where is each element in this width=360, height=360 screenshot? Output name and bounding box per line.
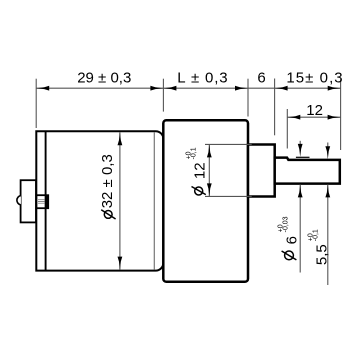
Ø12 leader bottom	[205, 195, 252, 197]
gearbox body	[163, 120, 248, 282]
arrow d32 down	[118, 257, 123, 270]
extension line shaft tip	[340, 79, 342, 150]
output boss (Ø12)	[248, 145, 275, 197]
Ø12 leader top	[205, 143, 252, 145]
extension line flat start	[286, 109, 288, 149]
5,5 lower leader	[327, 184, 329, 285]
arrow d6 down	[298, 144, 303, 157]
arrow 12 right	[328, 115, 341, 120]
svg-text:15± 0,3: 15± 0,3	[286, 70, 343, 87]
extension line motor/gearbox joint	[162, 79, 164, 112]
dimension text d6	[278, 216, 301, 260]
output shaft (Ø6 with flat)	[275, 158, 340, 184]
arrow 12 left	[287, 115, 300, 120]
svg-text:29 ± 0,3: 29 ± 0,3	[77, 70, 131, 87]
Ø32 dimension line	[119, 132, 121, 269]
motor endcap inner line	[45, 131, 47, 270]
arrow L left	[163, 86, 176, 91]
terminal block housing (left protrusion)	[21, 180, 36, 222]
dimension text d12	[185, 147, 208, 195]
terminal lug hatch lines	[38, 199, 45, 201]
dimension text d32	[99, 154, 116, 219]
motor body outline	[36, 131, 163, 270]
arrow 15 right	[328, 86, 341, 91]
svg-text:6: 6	[257, 70, 265, 87]
motor front face line	[153, 132, 155, 269]
full-diameter reference tick over flat	[296, 156, 310, 158]
arrow L right / 6 left	[235, 86, 248, 91]
svg-text:12: 12	[306, 102, 323, 119]
extension line boss face	[274, 79, 276, 136]
5,5 upper leader	[327, 143, 329, 150]
terminal lug	[36, 195, 48, 208]
extension line motor left	[35, 79, 37, 128]
arrow 5,5 up	[325, 184, 330, 197]
arrow d12 up	[207, 144, 212, 157]
arrow d12 down	[207, 183, 212, 196]
svg-text:32 ± 0,3: 32 ± 0,3	[99, 154, 116, 208]
Ø6 upper leader	[299, 141, 301, 147]
top dimension line	[36, 87, 341, 89]
arrow 5,5 down	[325, 146, 330, 159]
svg-text:L ± 0,3: L ± 0,3	[177, 70, 228, 87]
arrow 29 right	[150, 86, 163, 91]
arrow d32 up	[118, 132, 123, 145]
Ø6 lower leader	[299, 184, 301, 272]
arrow 29 left	[36, 86, 49, 91]
arrow 15 left / 6 right	[275, 86, 288, 91]
arrow d6 up	[298, 184, 303, 197]
terminal lug thick bar	[46, 195, 49, 208]
terminal bump (semicircle)	[17, 196, 21, 205]
extension line gearbox face	[247, 79, 249, 117]
dimension line 12	[287, 116, 340, 118]
Ø12 dimension line	[208, 144, 210, 196]
